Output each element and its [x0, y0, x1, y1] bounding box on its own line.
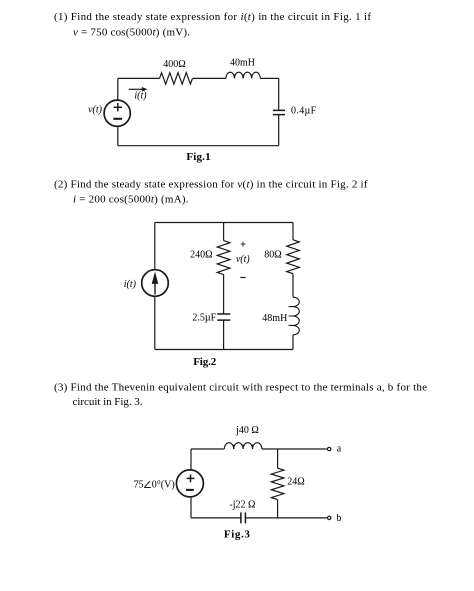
svg-text:i(t): i(t)	[134, 90, 147, 101]
svg-text:Fig.3: Fig.3	[224, 528, 251, 540]
svg-text:(V): (V)	[161, 480, 175, 491]
wire branch upper (Fig.3)	[277, 449, 279, 468]
svg-text:Fig.2: Fig.2	[193, 356, 217, 368]
capacitor 0.4uF (Fig.1)	[273, 110, 285, 114]
wire left (Fig.3)	[190, 449, 192, 518]
wire top-middle (Fig.1)	[193, 77, 226, 79]
resistor 400ohm (Fig.1)	[160, 73, 193, 84]
svg-text:(3) Find the Thevenin equivale: (3) Find the Thevenin equivalent circuit…	[54, 382, 427, 394]
wire right-upper (Fig.2)	[292, 223, 294, 240]
resistor 240ohm (Fig.2)	[217, 241, 230, 275]
capacitor -j22 (Fig.3)	[241, 512, 246, 523]
resistor 80ohm (Fig.2)	[287, 240, 300, 274]
problem 1 statement	[54, 11, 371, 38]
voltage source v(t) (Fig.1)	[104, 100, 130, 126]
svg-text:2.5µF: 2.5µF	[192, 312, 216, 323]
svg-text:b: b	[336, 513, 341, 524]
terminal a	[328, 447, 331, 450]
label - polarity (Fig.2)	[240, 277, 245, 279]
svg-text:240Ω: 240Ω	[190, 249, 212, 260]
svg-text:80Ω: 80Ω	[264, 249, 281, 260]
label 75 angle 0 (V)	[134, 479, 175, 491]
capacitor 2.5uF (Fig.2)	[217, 314, 230, 320]
svg-text:-j22 Ω: -j22 Ω	[229, 499, 255, 510]
svg-text:j40 Ω: j40 Ω	[235, 425, 259, 436]
current source i(t) (Fig.2)	[142, 270, 169, 297]
svg-text:v(t): v(t)	[236, 254, 251, 265]
svg-text:24Ω: 24Ω	[287, 477, 304, 488]
svg-text:v = 750 cos(5000t) (mV).: v = 750 cos(5000t) (mV).	[73, 27, 190, 39]
label + polarity (Fig.2)	[241, 242, 246, 247]
wire branch lower (Fig.3)	[277, 500, 279, 518]
wire left (Fig.2)	[154, 223, 156, 350]
svg-text:a: a	[337, 444, 342, 455]
problem 2 statement	[54, 179, 368, 206]
terminal b	[328, 516, 331, 519]
svg-text:48mH: 48mH	[262, 313, 287, 324]
svg-text:i(t): i(t)	[124, 279, 137, 290]
wire top (Fig.2)	[155, 222, 293, 224]
problem 3 statement	[54, 382, 427, 409]
wire middle-upper (Fig.2)	[223, 223, 225, 241]
wire bottom (Fig.1)	[118, 145, 279, 147]
wire right-bottom (Fig.2)	[292, 335, 294, 350]
svg-text:Fig.1: Fig.1	[186, 151, 210, 163]
wire bottom (Fig.2)	[155, 349, 293, 351]
current arrow i(t)	[129, 87, 148, 92]
wire right-middle (Fig.2)	[292, 274, 294, 298]
svg-text:(1) Find the steady state expr: (1) Find the steady state expression for…	[54, 11, 371, 23]
wire top-right (Fig.1)	[260, 78, 278, 110]
wire right-lower (Fig.1)	[278, 115, 280, 146]
svg-text:0: 0	[152, 480, 157, 491]
wire middle-bottom (Fig.2)	[223, 320, 225, 349]
svg-text:0.4µF: 0.4µF	[291, 106, 317, 117]
wire bottom-left (Fig.3)	[191, 517, 241, 519]
svg-text:v(t): v(t)	[88, 104, 103, 115]
inductor j40 (Fig.3)	[224, 443, 262, 449]
svg-text:400Ω: 400Ω	[163, 59, 185, 70]
inductor 48mH (Fig.2)	[289, 297, 300, 335]
wire top-left (Fig.1)	[118, 77, 160, 79]
svg-text:40mH: 40mH	[230, 58, 255, 69]
svg-text:circuit in Fig. 3.: circuit in Fig. 3.	[73, 396, 143, 408]
wire bottom-right (Fig.3)	[245, 517, 327, 519]
svg-text:(2) Find the steady state expr: (2) Find the steady state expression for…	[54, 179, 368, 191]
voltage source 75/_0 (Fig.3)	[176, 470, 203, 497]
wire middle-lower (Fig.2)	[223, 275, 225, 315]
inductor 40mH (Fig.1)	[226, 72, 260, 78]
resistor 24ohm (Fig.3)	[271, 468, 284, 499]
wire left (Fig.1)	[117, 78, 119, 145]
angle symbol	[144, 481, 151, 487]
svg-text:75: 75	[134, 480, 144, 491]
wire top-right (Fig.3)	[262, 448, 328, 450]
svg-text:i = 200 cos(5000t) (mA).: i = 200 cos(5000t) (mA).	[73, 194, 189, 206]
wire top-left (Fig.3)	[191, 448, 224, 450]
